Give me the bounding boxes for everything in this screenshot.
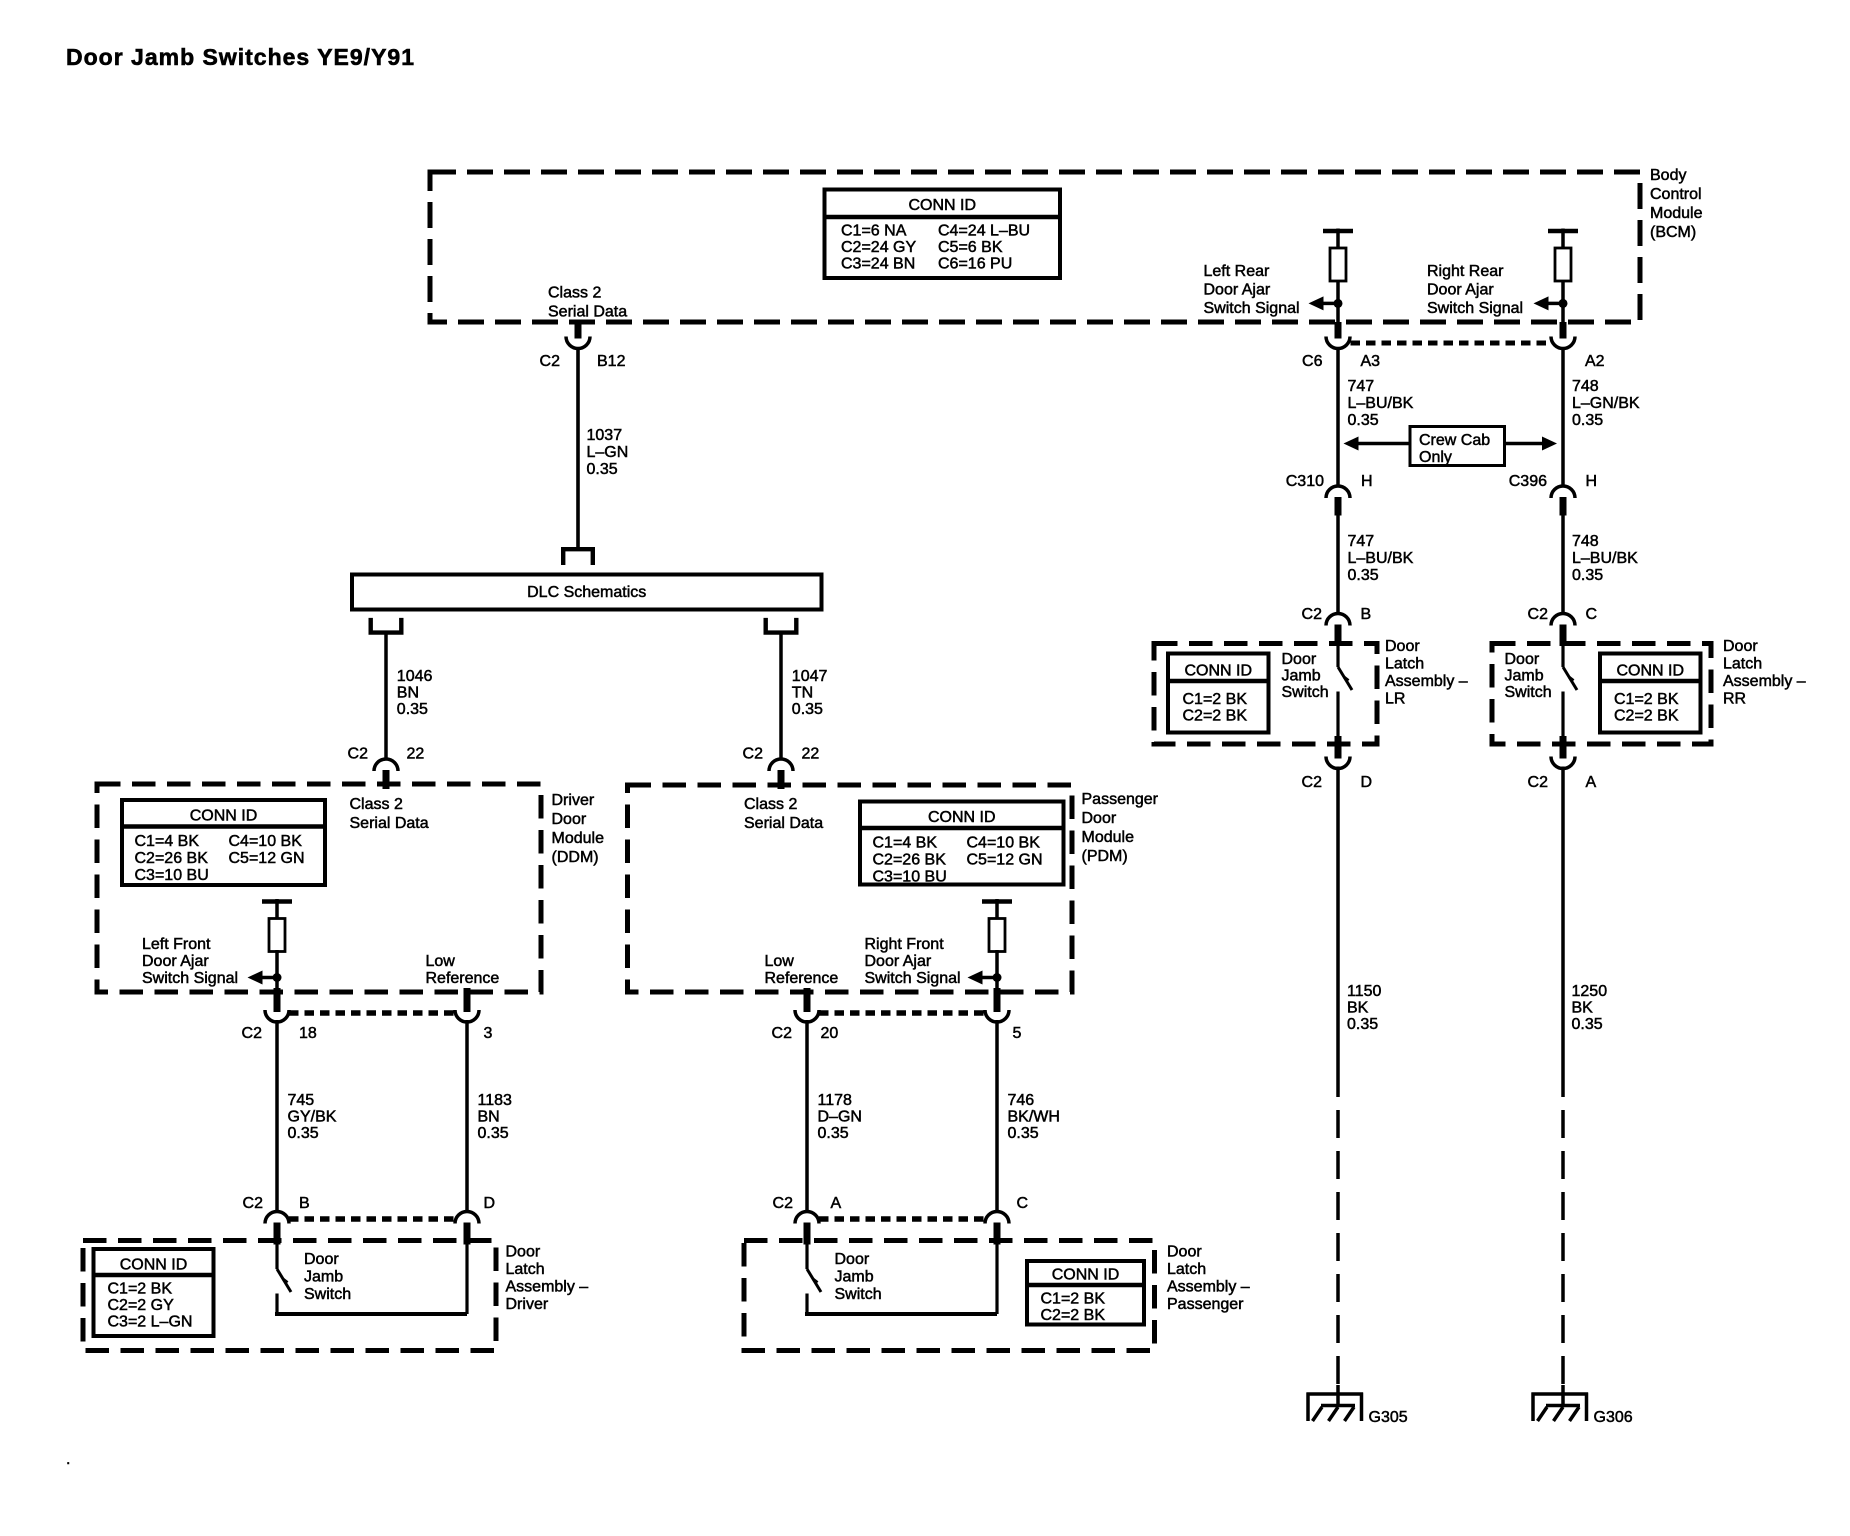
svg-text:Switch: Switch — [304, 1286, 351, 1303]
svg-text:A2: A2 — [1585, 353, 1605, 370]
svg-text:C3=2 L–GN: C3=2 L–GN — [108, 1314, 193, 1331]
svg-text:Door: Door — [552, 811, 587, 828]
svg-text:H: H — [1586, 473, 1598, 490]
svg-text:Door: Door — [1385, 638, 1420, 655]
svg-text:Door: Door — [1723, 638, 1758, 655]
svg-text:0.35: 0.35 — [1347, 1016, 1378, 1033]
svg-text:TN: TN — [792, 685, 813, 702]
svg-text:CONN ID: CONN ID — [1184, 663, 1252, 680]
svg-text:C3=10 BU: C3=10 BU — [873, 869, 947, 886]
svg-text:BN: BN — [478, 1109, 500, 1126]
svg-text:Door Ajar: Door Ajar — [1427, 282, 1494, 299]
svg-text:L–BU/BK: L–BU/BK — [1572, 550, 1638, 567]
svg-text:Serial Data: Serial Data — [744, 815, 823, 832]
svg-text:Right Rear: Right Rear — [1427, 263, 1504, 280]
svg-text:D–GN: D–GN — [818, 1109, 862, 1126]
svg-text:745: 745 — [288, 1092, 315, 1109]
svg-text:C2=2 BK: C2=2 BK — [1183, 708, 1248, 725]
svg-text:Left Front: Left Front — [142, 936, 211, 953]
svg-text:Switch Signal: Switch Signal — [1427, 300, 1523, 317]
svg-text:(DDM): (DDM) — [552, 849, 599, 866]
svg-text:RR: RR — [1723, 691, 1746, 708]
svg-text:C5=6 BK: C5=6 BK — [938, 239, 1003, 256]
svg-text:Assembly –: Assembly – — [506, 1279, 589, 1296]
svg-text:Only: Only — [1419, 449, 1452, 466]
svg-text:Door: Door — [304, 1251, 339, 1268]
svg-text:C3=24 BN: C3=24 BN — [841, 256, 915, 273]
svg-text:C1=2 BK: C1=2 BK — [1041, 1291, 1106, 1308]
svg-text:0.35: 0.35 — [1348, 412, 1379, 429]
svg-text:C2: C2 — [1302, 606, 1323, 623]
svg-text:Latch: Latch — [1723, 656, 1762, 673]
svg-text:Door: Door — [1082, 810, 1117, 827]
svg-text:0.35: 0.35 — [587, 461, 618, 478]
svg-text:CONN ID: CONN ID — [190, 808, 258, 825]
svg-text:1150: 1150 — [1347, 983, 1382, 1000]
svg-text:C5=12 GN: C5=12 GN — [229, 850, 305, 867]
svg-text:Module: Module — [552, 830, 605, 847]
svg-text:Class 2: Class 2 — [744, 796, 797, 813]
svg-text:748: 748 — [1572, 533, 1599, 550]
svg-text:Serial Data: Serial Data — [548, 304, 627, 321]
svg-text:C4=10 BK: C4=10 BK — [967, 835, 1041, 852]
svg-text:Door: Door — [1167, 1244, 1202, 1261]
svg-text:C2: C2 — [348, 746, 369, 763]
svg-text:D: D — [1361, 774, 1373, 791]
svg-text:(PDM): (PDM) — [1082, 848, 1128, 865]
svg-text:C1=4 BK: C1=4 BK — [135, 833, 200, 850]
svg-text:BK: BK — [1347, 1000, 1369, 1017]
svg-text:3: 3 — [484, 1025, 493, 1042]
svg-text:Door: Door — [1282, 651, 1317, 668]
svg-text:1047: 1047 — [792, 668, 828, 685]
svg-text:C2=24 GY: C2=24 GY — [841, 239, 916, 256]
svg-text:1046: 1046 — [397, 668, 433, 685]
svg-text:5: 5 — [1013, 1025, 1022, 1042]
svg-text:C: C — [1017, 1195, 1029, 1212]
svg-text:C2: C2 — [773, 1195, 794, 1212]
svg-text:18: 18 — [299, 1025, 317, 1042]
svg-text:747: 747 — [1348, 378, 1375, 395]
svg-text:Reference: Reference — [426, 970, 500, 987]
svg-text:22: 22 — [407, 746, 425, 763]
svg-text:C3=10 BU: C3=10 BU — [135, 867, 209, 884]
svg-text:(BCM): (BCM) — [1650, 224, 1696, 241]
svg-text:Switch Signal: Switch Signal — [142, 970, 238, 987]
svg-text:Latch: Latch — [506, 1261, 545, 1278]
svg-text:Jamb: Jamb — [304, 1269, 343, 1286]
svg-text:Driver: Driver — [552, 792, 595, 809]
svg-text:C2: C2 — [242, 1025, 263, 1042]
svg-text:Low: Low — [426, 953, 456, 970]
svg-text:Assembly –: Assembly – — [1167, 1279, 1250, 1296]
svg-text:A: A — [1586, 774, 1597, 791]
svg-text:Body: Body — [1650, 167, 1686, 184]
svg-text:A: A — [831, 1195, 842, 1212]
svg-text:0.35: 0.35 — [1572, 567, 1603, 584]
svg-text:G306: G306 — [1594, 1409, 1633, 1426]
svg-text:0.35: 0.35 — [792, 701, 823, 718]
svg-text:CONN ID: CONN ID — [120, 1257, 188, 1274]
svg-text:Passenger: Passenger — [1082, 791, 1159, 808]
svg-text:Door Jamb Switches YE9/Y91: Door Jamb Switches YE9/Y91 — [66, 44, 415, 70]
svg-text:Door Ajar: Door Ajar — [142, 953, 209, 970]
svg-text:Jamb: Jamb — [1505, 668, 1544, 685]
svg-text:B: B — [299, 1195, 310, 1212]
svg-text:D: D — [484, 1195, 496, 1212]
svg-text:LR: LR — [1385, 691, 1405, 708]
svg-text:Door Ajar: Door Ajar — [865, 953, 932, 970]
svg-text:Right Front: Right Front — [865, 936, 945, 953]
svg-text:748: 748 — [1572, 378, 1599, 395]
svg-text:C2: C2 — [1302, 774, 1323, 791]
svg-text:C5=12 GN: C5=12 GN — [967, 852, 1043, 869]
svg-text:C6=16 PU: C6=16 PU — [938, 256, 1012, 273]
svg-text:BK: BK — [1572, 1000, 1594, 1017]
svg-text:C1=2 BK: C1=2 BK — [1183, 691, 1248, 708]
svg-text:0.35: 0.35 — [288, 1125, 319, 1142]
svg-text:Jamb: Jamb — [1282, 668, 1321, 685]
svg-text:0.35: 0.35 — [397, 701, 428, 718]
svg-text:CONN ID: CONN ID — [1616, 663, 1684, 680]
svg-text:0.35: 0.35 — [1572, 412, 1603, 429]
svg-text:Driver: Driver — [506, 1296, 549, 1313]
svg-text:Door Ajar: Door Ajar — [1204, 282, 1271, 299]
svg-text:C6: C6 — [1302, 353, 1323, 370]
svg-text:Latch: Latch — [1167, 1261, 1206, 1278]
svg-text:CONN ID: CONN ID — [1052, 1267, 1120, 1284]
svg-text:Serial Data: Serial Data — [350, 815, 429, 832]
svg-text:1178: 1178 — [818, 1092, 853, 1109]
svg-text:Switch: Switch — [1282, 684, 1329, 701]
svg-text:B: B — [1361, 606, 1372, 623]
svg-text:1037: 1037 — [587, 427, 623, 444]
svg-text:BN: BN — [397, 685, 419, 702]
svg-text:Crew Cab: Crew Cab — [1419, 432, 1490, 449]
svg-text:Control: Control — [1650, 186, 1702, 203]
svg-text:C1=4 BK: C1=4 BK — [873, 835, 938, 852]
svg-text:BK/WH: BK/WH — [1008, 1109, 1060, 1126]
svg-text:Switch Signal: Switch Signal — [865, 970, 961, 987]
svg-text:Latch: Latch — [1385, 656, 1424, 673]
svg-text:C2: C2 — [540, 353, 561, 370]
svg-text:C2=26 BK: C2=26 BK — [135, 850, 209, 867]
svg-text:C2=2 BK: C2=2 BK — [1614, 708, 1679, 725]
svg-text:CONN ID: CONN ID — [928, 809, 996, 826]
svg-text:L–BU/BK: L–BU/BK — [1348, 550, 1414, 567]
svg-text:L–GN: L–GN — [587, 444, 629, 461]
svg-text:1250: 1250 — [1572, 983, 1608, 1000]
svg-text:0.35: 0.35 — [1572, 1016, 1603, 1033]
svg-text:C4=24 L–BU: C4=24 L–BU — [938, 223, 1030, 240]
svg-text:Low: Low — [765, 953, 795, 970]
svg-text:Module: Module — [1650, 205, 1703, 222]
svg-text:CONN ID: CONN ID — [908, 197, 976, 214]
svg-text:1183: 1183 — [478, 1092, 513, 1109]
svg-text:22: 22 — [802, 746, 820, 763]
svg-text:Door: Door — [835, 1251, 870, 1268]
svg-text:Class 2: Class 2 — [548, 285, 601, 302]
svg-text:C2=2 GY: C2=2 GY — [108, 1297, 175, 1314]
svg-text:0.35: 0.35 — [818, 1125, 849, 1142]
svg-text:G305: G305 — [1369, 1409, 1408, 1426]
svg-text:Door: Door — [506, 1244, 541, 1261]
svg-text:746: 746 — [1008, 1092, 1035, 1109]
svg-text:C2: C2 — [243, 1195, 264, 1212]
svg-text:C1=2 BK: C1=2 BK — [1614, 691, 1679, 708]
svg-text:0.35: 0.35 — [478, 1125, 509, 1142]
svg-text:DLC Schematics: DLC Schematics — [527, 584, 646, 601]
svg-text:Switch: Switch — [835, 1286, 882, 1303]
svg-text:Switch: Switch — [1505, 684, 1552, 701]
svg-text:C396: C396 — [1509, 473, 1547, 490]
svg-text:C310: C310 — [1286, 473, 1324, 490]
svg-text:Left Rear: Left Rear — [1204, 263, 1270, 280]
svg-text:L–GN/BK: L–GN/BK — [1572, 395, 1640, 412]
svg-text:C2: C2 — [1528, 774, 1549, 791]
svg-text:H: H — [1361, 473, 1373, 490]
svg-text:Door: Door — [1505, 651, 1540, 668]
svg-text:Class 2: Class 2 — [350, 796, 403, 813]
svg-text:Reference: Reference — [765, 970, 839, 987]
svg-text:20: 20 — [821, 1025, 839, 1042]
svg-text:0.35: 0.35 — [1348, 567, 1379, 584]
svg-text:.: . — [66, 1451, 70, 1468]
svg-text:747: 747 — [1348, 533, 1375, 550]
svg-text:B12: B12 — [597, 353, 626, 370]
svg-text:C2=26 BK: C2=26 BK — [873, 852, 947, 869]
svg-text:Passenger: Passenger — [1167, 1296, 1244, 1313]
svg-text:A3: A3 — [1361, 353, 1381, 370]
svg-text:0.35: 0.35 — [1008, 1125, 1039, 1142]
svg-text:Switch Signal: Switch Signal — [1204, 300, 1300, 317]
svg-text:Assembly –: Assembly – — [1723, 673, 1806, 690]
svg-text:C: C — [1586, 606, 1598, 623]
svg-text:C1=6 NA: C1=6 NA — [841, 223, 907, 240]
svg-text:C2: C2 — [1528, 606, 1549, 623]
svg-text:GY/BK: GY/BK — [288, 1109, 337, 1126]
svg-text:L–BU/BK: L–BU/BK — [1348, 395, 1414, 412]
svg-text:Jamb: Jamb — [835, 1269, 874, 1286]
svg-text:C2=2 BK: C2=2 BK — [1041, 1307, 1106, 1324]
svg-text:Module: Module — [1082, 829, 1135, 846]
svg-text:C2: C2 — [743, 746, 764, 763]
svg-text:Assembly –: Assembly – — [1385, 673, 1468, 690]
svg-text:C2: C2 — [772, 1025, 793, 1042]
svg-text:C1=2 BK: C1=2 BK — [108, 1281, 173, 1298]
svg-text:C4=10 BK: C4=10 BK — [229, 833, 303, 850]
